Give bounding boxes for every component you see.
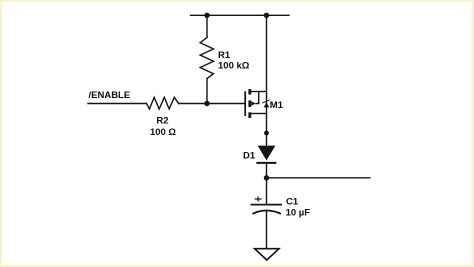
wire D1 to output node [266, 163, 268, 178]
transistor M1 PMOS [245, 89, 269, 118]
M1 source contact line [251, 91, 267, 93]
ground [255, 249, 279, 260]
M1 channel bar middle [248, 100, 251, 107]
node junction dot rail-R1 [204, 13, 209, 18]
wire C1 to ground [266, 211, 268, 249]
wire output to C1 [266, 178, 268, 205]
diode D1 [256, 146, 276, 178]
wire R2 to gate [179, 103, 245, 105]
M1 body tie wire [255, 92, 258, 104]
svg-text:10 µF: 10 µF [286, 208, 311, 219]
wire M1 vertical source-drain line [266, 15, 268, 146]
M1 drain contact line [251, 113, 267, 115]
node junction dot rail-M1 [264, 13, 269, 18]
D1 anode triangle [258, 146, 276, 161]
M1 source arrow tick [262, 100, 269, 103]
svg-text:C1: C1 [286, 197, 299, 208]
capacitor C1 [251, 196, 283, 248]
M1 body arrow [251, 101, 255, 106]
C1 top plate [251, 204, 283, 206]
M1 channel bar bottom [248, 112, 251, 118]
wire output to the right [267, 177, 371, 179]
D1 cathode bar [256, 162, 276, 164]
node dot drain [264, 131, 269, 136]
C1 plus sign [255, 198, 262, 200]
wire /ENABLE to R2 [88, 103, 147, 105]
resistor R2 [147, 97, 179, 109]
resistor R1 [200, 38, 213, 79]
M1 channel bar top [248, 89, 251, 95]
wire R1 bottom lead [206, 79, 208, 104]
svg-text:M1: M1 [270, 100, 284, 111]
svg-text:R1: R1 [218, 50, 231, 61]
svg-text:R2: R2 [156, 116, 168, 127]
M1 source arrow [264, 103, 270, 108]
wire R1 top lead [206, 15, 208, 37]
svg-text:100 kΩ: 100 kΩ [218, 61, 250, 72]
wire top supply rail [191, 14, 290, 16]
svg-text:D1: D1 [243, 151, 256, 162]
M1 gate bar [244, 91, 246, 116]
node junction dot output [264, 175, 269, 180]
svg-text:/ENABLE: /ENABLE [89, 90, 131, 101]
node junction dot gate-R1 [204, 101, 209, 106]
C1 bottom plate arc [252, 211, 281, 214]
svg-text:100 Ω: 100 Ω [150, 127, 176, 138]
